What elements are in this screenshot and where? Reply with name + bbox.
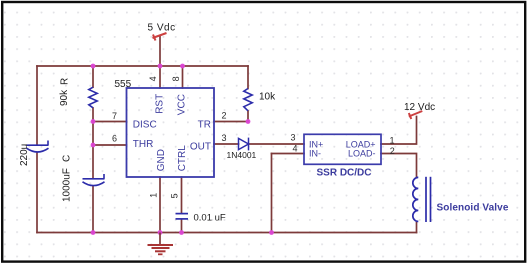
- svg-text:VCC: VCC: [176, 94, 187, 115]
- svg-text:1N4001: 1N4001: [227, 150, 257, 160]
- svg-text:90k: 90k: [59, 89, 70, 106]
- op-amp U1 555 body: [127, 88, 215, 177]
- svg-text:DISC: DISC: [133, 119, 157, 130]
- junction dot 5V/pin4 on top rail: [158, 64, 163, 69]
- svg-text:TR: TR: [198, 119, 211, 130]
- junction dot cap C bottom rail: [91, 230, 96, 235]
- power symbol 5 Vdc: [153, 33, 167, 41]
- svg-text:555: 555: [115, 79, 132, 90]
- wire diode cathode to SSR IN+: [249, 143, 305, 145]
- wire bottom rail: [37, 232, 417, 234]
- svg-text:1: 1: [148, 193, 158, 198]
- svg-text:RST: RST: [155, 94, 166, 114]
- svg-text:8: 8: [171, 76, 181, 81]
- junction dot pin7: [91, 119, 96, 124]
- wire SSR LOAD+ to 12Vdc: [381, 117, 417, 145]
- wire pin1 GND lead: [159, 177, 161, 233]
- svg-text:0.01 uF: 0.01 uF: [194, 213, 226, 224]
- wire pin7 DISC: [93, 121, 127, 123]
- wire pin5 CTRL lead upper: [181, 177, 183, 213]
- svg-text:CTRL: CTRL: [177, 145, 188, 172]
- svg-text:4: 4: [292, 143, 297, 153]
- svg-text:7: 7: [112, 111, 117, 121]
- resistor R2 10k: [244, 89, 252, 111]
- wire cap C bottom to bottom rail: [92, 186, 94, 233]
- wire left vertical upper (to 220u cap): [36, 66, 38, 144]
- resistor R 90k: [89, 87, 97, 108]
- wire SSR IN- horizontal: [272, 153, 305, 155]
- wire 10k bottom branch: [247, 111, 249, 122]
- ground: [148, 233, 174, 255]
- svg-text:220u: 220u: [19, 144, 30, 166]
- wire pin3 OUT to diode: [214, 143, 239, 145]
- svg-text:OUT: OUT: [190, 141, 211, 152]
- wire pin6 THR: [93, 144, 127, 146]
- inductor L solenoid valve: [413, 177, 431, 222]
- wire 10k top branch: [247, 66, 249, 89]
- wire top rail: [37, 65, 248, 67]
- svg-text:THR: THR: [133, 139, 154, 150]
- junction dot resistor R top rail: [91, 64, 96, 69]
- svg-text:LOAD-: LOAD-: [348, 149, 376, 159]
- svg-text:2: 2: [221, 111, 226, 121]
- capacitor 0.01 uF: [176, 214, 189, 219]
- wire SSR LOAD- to solenoid top: [381, 154, 417, 178]
- svg-text:6: 6: [112, 134, 117, 144]
- svg-text:SSR DC/DC: SSR DC/DC: [316, 168, 371, 179]
- wire 5Vdc lead: [159, 37, 161, 67]
- junction dot pin2/10k: [246, 119, 251, 124]
- svg-text:3: 3: [221, 133, 226, 143]
- wire pin2 TR: [214, 121, 248, 123]
- svg-text:10k: 10k: [259, 92, 276, 103]
- svg-text:5: 5: [170, 193, 180, 198]
- wire left vertical lower (220u cap to bottom rail): [36, 153, 38, 233]
- capacitor 220u: [27, 141, 49, 153]
- svg-text:12 Vdc: 12 Vdc: [404, 102, 435, 113]
- wire R 90k top branch: [92, 66, 94, 87]
- svg-text:3: 3: [290, 132, 295, 142]
- svg-text:IN-: IN-: [309, 149, 321, 159]
- wire R 90k bottom to pin7/pin6 junctions down to cap C: [92, 108, 94, 178]
- svg-text:4: 4: [148, 76, 158, 81]
- svg-text:R: R: [60, 78, 71, 85]
- wire pin4 RST lead: [159, 66, 161, 88]
- power symbol 12 Vdc: [409, 111, 423, 119]
- diode D 1N4001: [239, 138, 249, 151]
- wire SSR IN- vertical to bottom rail: [271, 154, 273, 233]
- wire pin5 cap 0.01uF to bottom rail: [181, 220, 183, 233]
- wire solenoid bottom to rail: [416, 222, 418, 233]
- svg-text:5 Vdc: 5 Vdc: [148, 23, 176, 34]
- svg-text:GND: GND: [156, 149, 167, 171]
- junction dot pin8 on top rail: [180, 64, 185, 69]
- junction dot 0.01uF on bottom rail: [179, 230, 184, 235]
- wire pin8 VCC lead: [182, 66, 184, 88]
- svg-text:Solenoid Valve: Solenoid Valve: [437, 202, 509, 213]
- svg-text:C: C: [62, 155, 73, 162]
- svg-text:1000uF: 1000uF: [62, 168, 73, 202]
- junction dot pin6: [91, 143, 96, 148]
- junction dot ground on bottom rail: [158, 230, 163, 235]
- svg-text:1: 1: [389, 136, 394, 146]
- capacitor C 1000uF: [83, 174, 105, 186]
- junction dot IN- on bottom rail: [269, 230, 274, 235]
- svg-text:2: 2: [390, 146, 395, 156]
- U2 SSR DC/DC body: [304, 134, 381, 164]
